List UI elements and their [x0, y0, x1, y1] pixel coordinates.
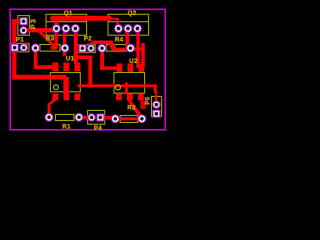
silk U2 pin1 circle	[116, 85, 121, 90]
silk Q2 box	[108, 14, 149, 35]
svg-text:P5: P5	[145, 96, 152, 104]
pad P4.2 square	[97, 114, 104, 121]
silk R4 box	[106, 45, 126, 52]
silk R3 box	[40, 45, 60, 52]
pad R4.L round	[98, 44, 106, 52]
pad R2.R round	[138, 115, 146, 123]
svg-text:P3: P3	[28, 18, 37, 29]
wire U2 pad B2 diagonal to R2 right	[127, 100, 144, 120]
pad P4.1 round	[88, 114, 96, 122]
wire second vertical to U2 pad T3	[141, 43, 145, 68]
wire Q1.1 up	[54, 16, 58, 29]
wire Q2.2 to R4 right pad	[125, 31, 129, 46]
wire P2.2 to R4	[92, 41, 109, 44]
wire across to U1 pad T1	[34, 65, 54, 69]
wire top thick horizontal	[50, 16, 112, 21]
silk P2 box	[77, 45, 95, 53]
svg-text:P1: P1	[16, 37, 24, 44]
silk P3 box	[18, 16, 30, 36]
wire Q2.1 drop	[116, 19, 119, 27]
wire left vertical rail	[12, 19, 16, 79]
wire thin into P5.1	[155, 92, 157, 102]
pad R1.R round	[75, 113, 83, 121]
wire R4 left pad staircase down	[100, 50, 104, 70]
wire Q1.3 down to U1 pad T3	[74, 31, 78, 64]
silk U2 box	[114, 73, 145, 94]
wire U2 pad B2 cross vertical	[125, 83, 128, 95]
pad P5.1 round	[153, 101, 161, 109]
pads Q1 1-3 round	[52, 24, 79, 32]
wire stub above P1.2	[26, 43, 29, 45]
svg-text:P2: P2	[84, 36, 92, 43]
pad R3.R round	[61, 44, 69, 52]
wire rail into U2 pad T1	[100, 66, 116, 69]
IC U1 bottom pads	[52, 94, 58, 101]
wire Q1.3 branch to P5 net	[77, 56, 92, 60]
wire P3.1 to left edge	[12, 19, 26, 23]
pad P5.2 square	[153, 110, 160, 117]
pads Q2 1-3 round	[114, 24, 141, 32]
board outline	[10, 9, 165, 130]
pad R3.L round	[31, 44, 39, 52]
silk P4 box	[88, 110, 105, 124]
wire through R4 box	[112, 48, 144, 51]
svg-text:R2: R2	[127, 104, 136, 111]
wire Q1.1 stub down	[54, 31, 58, 49]
silk P1 box	[12, 43, 29, 51]
wire U2 pad B3 stub down	[140, 100, 146, 110]
silk R1 box	[56, 114, 75, 120]
wire R3 left pad down	[34, 50, 38, 69]
pad P2.2 round	[87, 45, 95, 53]
svg-text:U2: U2	[129, 58, 138, 65]
wire P4.2 to R2 left	[101, 116, 116, 119]
wire drop into U1 pad B2	[63, 77, 68, 95]
wire thin extension to Q2.1	[111, 18, 120, 20]
IC U2 top pads	[117, 64, 123, 72]
wire Q2.3 down to U2 pad T3	[136, 31, 139, 68]
wire diagonal jog at R4	[108, 41, 116, 51]
wire through U2 to P5	[78, 84, 157, 87]
wire stub below R3 right pad	[63, 51, 66, 56]
wire Q1.2 to R3 right pad	[63, 31, 66, 45]
IC U1 top pads	[52, 63, 58, 72]
pad P3.2 round	[20, 27, 28, 35]
pad R1.L round	[45, 113, 53, 121]
wire R1 right to P4.1	[80, 116, 92, 119]
wire diagonal P3.2 net to R3 box area	[34, 28, 56, 46]
svg-text:R1: R1	[62, 123, 71, 130]
wire through R2 box	[116, 117, 141, 120]
pad R4.R round	[126, 44, 134, 52]
svg-text:U1: U1	[66, 55, 75, 62]
svg-text:P4: P4	[94, 125, 102, 132]
wire P3.2 to Q1.1	[21, 28, 56, 32]
IC U2 bottom pads	[116, 94, 122, 100]
pad P1.1 square	[11, 44, 18, 51]
pad P3.1 square	[20, 18, 27, 25]
wire corner down toward P5	[154, 84, 157, 93]
silk U1 pin1 circle	[54, 85, 59, 90]
wire horizontal into U1	[12, 75, 66, 80]
pad R2.L round	[111, 115, 119, 123]
silk U1 box	[50, 73, 80, 92]
svg-text:R4: R4	[115, 36, 124, 43]
silk R2 box	[120, 116, 138, 123]
silk Q1 box	[46, 14, 87, 35]
wire stub trace to P2.2	[89, 43, 91, 48]
svg-text:Q1: Q1	[64, 10, 73, 17]
pad P1.2 round	[20, 44, 28, 52]
wire U1 pad B1 to R1 left	[48, 99, 58, 105]
pad P2.1 square	[79, 45, 86, 52]
svg-text:R3: R3	[46, 35, 55, 42]
silk P5 box	[152, 96, 162, 116]
svg-text:Q2: Q2	[128, 10, 137, 17]
